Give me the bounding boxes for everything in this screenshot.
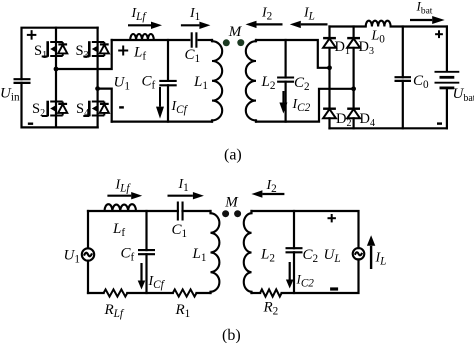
inductor L2 (b) (244, 213, 252, 292)
diode D4 (347, 109, 360, 119)
wire (b) top primary (88, 210, 211, 212)
current arrow ILf (b) (107, 195, 131, 197)
transistor S4 (83, 101, 108, 117)
current arrow I1 (181, 24, 200, 26)
label - (Uin) (28, 122, 33, 124)
wire tank bottom (112, 120, 212, 122)
wire tank top (112, 39, 212, 41)
polarity dot primary (223, 39, 230, 46)
inductor Lf (b) (105, 204, 137, 211)
wire rectifier top rail (330, 25, 447, 27)
svg-text:M: M (224, 195, 239, 211)
source U1 (AC) (87, 211, 89, 293)
wire right diode column (353, 27, 355, 129)
resistor RLf (104, 289, 128, 296)
transistor S2 (42, 101, 67, 117)
svg-text:(a): (a) (224, 147, 242, 164)
current arrow ILf (128, 24, 151, 26)
current arrow ICf (b) (140, 263, 142, 281)
wire (b) secondary top (252, 211, 359, 248)
capacitor C0 (402, 27, 404, 129)
resistor R2 (260, 289, 282, 296)
label - (Ubat) (437, 122, 442, 124)
node bridge left input (327, 65, 332, 70)
capacitor C2 (285, 40, 287, 122)
node bridge right input (351, 86, 356, 91)
label + (U1) (118, 50, 128, 52)
diode D3 (347, 38, 360, 48)
current arrow Ibat (410, 19, 432, 21)
wire (b) secondary bottom (252, 259, 359, 293)
capacitor C2 (b) (293, 211, 295, 293)
node left-leg midpoint (54, 67, 59, 72)
wire U1 - terminal (98, 89, 112, 122)
inductor L1 (primary) (212, 41, 222, 120)
inductor L0 (366, 21, 391, 27)
transistor S3 (83, 41, 108, 57)
wire secondary bottom (256, 89, 354, 122)
current arrow I2 (b) (262, 193, 284, 195)
wire rectifier bottom rail (330, 127, 447, 129)
wire (b) bottom primary (88, 292, 211, 294)
capacitor Cf (b) (145, 211, 147, 293)
capacitor C1 (191, 32, 193, 47)
current arrow IL (b) (370, 246, 372, 269)
diode D1 (323, 38, 336, 48)
svg-text:M: M (228, 24, 243, 40)
label - (U1) (119, 106, 124, 108)
current arrow IC2 (a) (282, 91, 284, 103)
current arrow I1 (b) (168, 195, 193, 197)
current arrow IL (a) (301, 23, 328, 25)
inductor L2 (secondary) (246, 41, 256, 120)
capacitor Cf (167, 40, 169, 122)
battery Ubat (446, 27, 448, 129)
wire Uin left / bridge rails (22, 28, 98, 128)
wire secondary top (256, 40, 330, 68)
current arrow I2 (a) (257, 23, 283, 25)
label + (UL) (328, 217, 336, 219)
polarity dot primary (b) (222, 210, 229, 217)
diode D2 (323, 109, 336, 119)
resistor R1 (173, 289, 197, 296)
inductor L1 (b) (211, 213, 220, 292)
svg-text:(b): (b) (222, 327, 241, 343)
polarity dot secondary (b) (234, 210, 241, 217)
node right-leg midpoint (95, 86, 100, 91)
current arrow IC2 (b) (289, 262, 291, 280)
label + (Uin) (27, 34, 36, 36)
transistor S1 (42, 41, 67, 57)
source IL (AC) (353, 248, 365, 260)
capacitor C1 (b) (177, 202, 179, 221)
polarity dot secondary (237, 39, 244, 46)
wire U1 + terminal (56, 40, 112, 69)
source Uin plates (14, 78, 31, 80)
inductor Lf (130, 34, 154, 40)
wire left diode column (328, 27, 330, 129)
label + (Ubat) (435, 33, 443, 35)
current arrow ICf (159, 87, 161, 107)
label - (UL) (330, 287, 338, 290)
